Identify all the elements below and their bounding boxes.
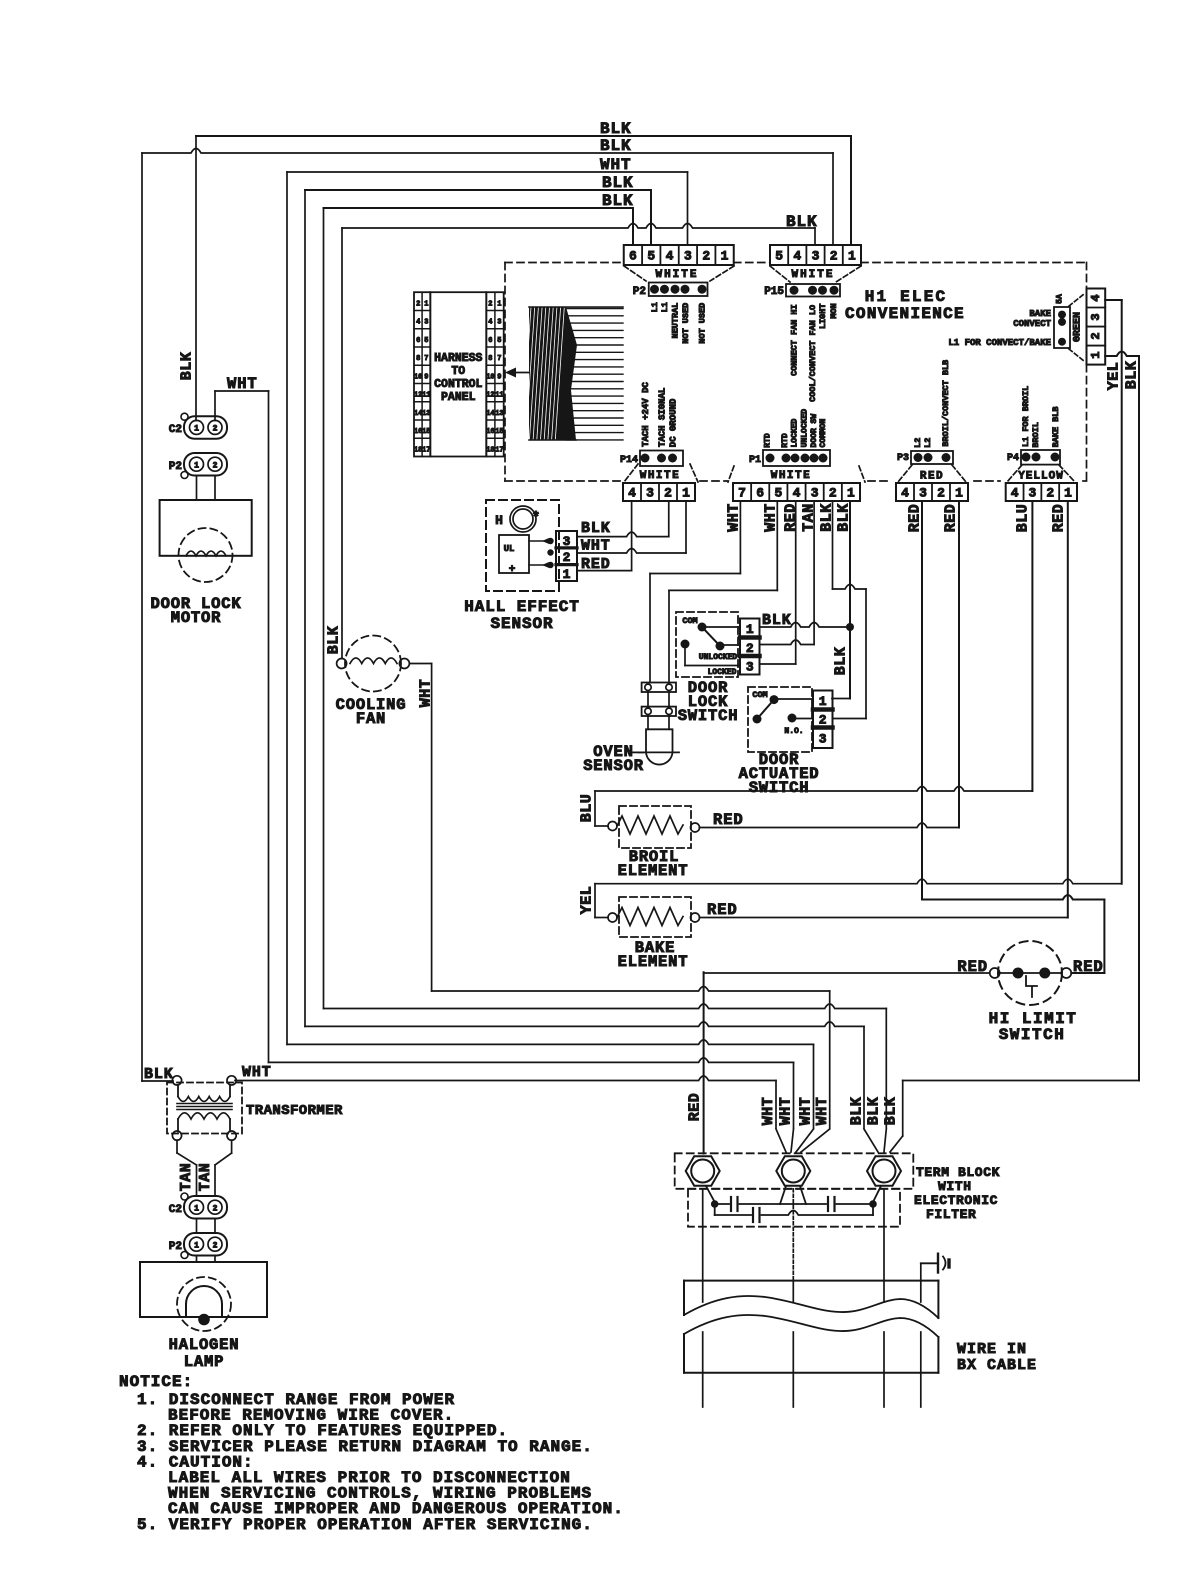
svg-text:WHT: WHT [763, 503, 780, 532]
svg-text:2: 2 [937, 486, 945, 501]
svg-text:3: 3 [424, 319, 428, 327]
svg-text:COM: COM [682, 616, 697, 626]
svg-text:6: 6 [629, 249, 637, 264]
svg-text:RTD: RTD [764, 433, 773, 448]
svg-text:2: 2 [488, 300, 492, 308]
svg-text:COMMON: COMMON [819, 419, 828, 448]
svg-text:MON: MON [829, 303, 839, 318]
svg-text:1: 1 [497, 300, 501, 308]
svg-text:BLK: BLK [762, 612, 792, 629]
svg-text:2: 2 [416, 300, 420, 308]
svg-text:1: 1 [194, 425, 199, 434]
svg-text:RED: RED [957, 958, 988, 976]
svg-text:BLK: BLK [602, 174, 634, 192]
svg-text:YEL: YEL [579, 886, 596, 915]
svg-text:3: 3 [497, 319, 501, 327]
svg-text:LOCKED: LOCKED [708, 668, 737, 677]
svg-text:COOL/CONVECT FAN LO: COOL/CONVECT FAN LO [808, 305, 818, 402]
svg-text:8: 8 [488, 355, 492, 363]
svg-text:5: 5 [774, 486, 782, 501]
svg-text:1: 1 [194, 461, 199, 470]
svg-text:2: 2 [213, 461, 218, 470]
svg-text:10: 10 [414, 373, 422, 381]
svg-text:NOT USED: NOT USED [698, 303, 708, 344]
svg-text:L2: L2 [913, 438, 923, 448]
svg-text:RED: RED [907, 504, 924, 533]
svg-text:BX CABLE: BX CABLE [957, 1357, 1037, 1374]
svg-text:UL: UL [504, 544, 515, 554]
svg-text:LOCKED: LOCKED [791, 419, 800, 448]
svg-text:BLU: BLU [1015, 504, 1032, 533]
svg-text:GREEN: GREEN [1073, 312, 1084, 342]
svg-text:BLK: BLK [600, 120, 632, 138]
svg-text:C2: C2 [169, 424, 182, 436]
svg-text:RTD: RTD [781, 433, 790, 448]
svg-text:1: 1 [847, 486, 855, 501]
svg-text:YEL: YEL [1106, 362, 1123, 391]
svg-text:MOTOR: MOTOR [171, 609, 222, 627]
svg-text:1: 1 [746, 622, 754, 637]
svg-text:5A: 5A [1056, 294, 1065, 304]
svg-text:TO: TO [451, 365, 465, 378]
svg-text:1: 1 [848, 249, 856, 264]
svg-text:DOOR SW: DOOR SW [810, 414, 819, 448]
svg-text:10: 10 [486, 373, 494, 381]
svg-text:3: 3 [819, 732, 827, 747]
svg-text:5: 5 [775, 249, 783, 264]
svg-text:7: 7 [424, 355, 428, 363]
svg-text:P2: P2 [169, 461, 182, 473]
svg-text:RED: RED [920, 471, 944, 483]
svg-text:TACH +24V DC: TACH +24V DC [641, 382, 651, 447]
svg-text:7: 7 [497, 355, 501, 363]
svg-text:TAN: TAN [197, 1163, 214, 1192]
svg-text:BAKE BLB: BAKE BLB [1051, 407, 1061, 448]
svg-text:2: 2 [830, 249, 838, 264]
svg-text:P2: P2 [169, 1241, 182, 1253]
svg-text:6: 6 [488, 337, 492, 345]
svg-text:17: 17 [495, 446, 503, 454]
svg-text:8: 8 [416, 355, 420, 363]
svg-text:4: 4 [901, 486, 909, 501]
svg-text:L1: L1 [650, 302, 660, 312]
svg-text:1: 1 [955, 486, 963, 501]
svg-text:HARNESS: HARNESS [434, 352, 482, 365]
svg-text:WHT: WHT [778, 1097, 795, 1126]
svg-text:15: 15 [495, 428, 503, 436]
svg-text:SWITCH: SWITCH [749, 779, 810, 797]
svg-text:BLK: BLK [179, 352, 196, 381]
svg-text:4: 4 [793, 486, 801, 501]
svg-text:17: 17 [422, 446, 430, 454]
svg-text:2: 2 [1046, 486, 1054, 501]
svg-text:WHT: WHT [760, 1097, 777, 1126]
svg-text:3: 3 [1089, 313, 1103, 320]
svg-text:N.O.: N.O. [784, 727, 803, 736]
svg-text:4: 4 [416, 319, 420, 327]
svg-text:4: 4 [1011, 486, 1019, 501]
svg-text:3: 3 [1029, 486, 1037, 501]
svg-text:WHT: WHT [814, 1097, 831, 1126]
svg-text:WHT: WHT [418, 679, 435, 708]
svg-text:2: 2 [1089, 332, 1103, 339]
svg-text:P3: P3 [897, 453, 909, 464]
svg-text:TERM BLOCK: TERM BLOCK [916, 1165, 1000, 1180]
svg-text:2: 2 [829, 486, 837, 501]
svg-text:TAN: TAN [801, 503, 818, 532]
svg-text:1: 1 [424, 300, 428, 308]
svg-text:7: 7 [738, 486, 746, 501]
svg-text:DC GROUND: DC GROUND [669, 398, 679, 447]
svg-text:1: 1 [721, 249, 729, 264]
svg-text:RED: RED [1051, 504, 1068, 533]
svg-text:1: 1 [194, 1204, 199, 1213]
svg-text:RED: RED [581, 556, 611, 573]
svg-text:6: 6 [416, 337, 420, 345]
svg-text:*: * [532, 510, 540, 526]
svg-text:RED: RED [707, 901, 738, 919]
svg-text:WHITE: WHITE [771, 470, 812, 482]
svg-text:ELEMENT: ELEMENT [618, 953, 689, 971]
svg-text:1: 1 [682, 486, 690, 501]
svg-text:5: 5 [647, 249, 655, 264]
svg-text:WHT: WHT [798, 1097, 815, 1126]
svg-text:WHT: WHT [242, 1064, 272, 1081]
svg-text:COM: COM [752, 690, 767, 700]
svg-text:3: 3 [563, 534, 571, 549]
svg-text:LIGHT: LIGHT [818, 303, 828, 329]
svg-text:TRANSFORMER: TRANSFORMER [246, 1103, 343, 1119]
svg-text:RED: RED [1073, 958, 1104, 976]
svg-text:LAMP: LAMP [184, 1353, 224, 1371]
svg-text:NOT USED: NOT USED [681, 303, 691, 344]
svg-text:6: 6 [756, 486, 764, 501]
svg-text:P15: P15 [764, 286, 784, 298]
svg-text:CONVENIENCE: CONVENIENCE [845, 305, 965, 323]
svg-text:1: 1 [563, 567, 571, 582]
svg-text:L1: L1 [660, 302, 670, 312]
svg-text:1: 1 [194, 1241, 199, 1250]
svg-text:9: 9 [424, 373, 428, 381]
svg-text:1: 1 [819, 694, 827, 709]
svg-text:C2: C2 [169, 1204, 182, 1216]
svg-text:+: + [509, 564, 516, 576]
svg-text:RED: RED [713, 811, 744, 829]
svg-text:NOTICE:: NOTICE: [119, 1373, 193, 1391]
svg-text:FAN: FAN [356, 710, 386, 728]
svg-text:WITH: WITH [938, 1179, 972, 1194]
svg-text:2: 2 [819, 713, 827, 728]
svg-text:9: 9 [497, 373, 501, 381]
svg-text:ELECTRONIC: ELECTRONIC [914, 1193, 998, 1208]
svg-text:13: 13 [422, 410, 430, 418]
svg-text:3: 3 [811, 486, 819, 501]
svg-text:BLK: BLK [600, 137, 632, 155]
svg-text:WHT: WHT [227, 375, 258, 393]
svg-text:L1 FOR BROIL: L1 FOR BROIL [1021, 386, 1031, 447]
svg-text:3: 3 [812, 249, 820, 264]
svg-text:2: 2 [213, 425, 218, 434]
svg-text:P14: P14 [620, 455, 638, 466]
svg-text:3: 3 [746, 660, 754, 675]
svg-text:L2: L2 [923, 438, 933, 448]
svg-text:4: 4 [793, 249, 801, 264]
svg-text:WHT: WHT [581, 538, 611, 555]
svg-text:NEUTRAL: NEUTRAL [671, 303, 681, 339]
svg-text:RED: RED [687, 1093, 704, 1122]
svg-text:BLK: BLK [581, 520, 611, 537]
svg-text:11: 11 [495, 392, 503, 400]
svg-text:4: 4 [628, 486, 636, 501]
svg-text:18: 18 [486, 446, 494, 454]
svg-text:FILTER: FILTER [926, 1207, 976, 1222]
svg-text:2: 2 [702, 249, 710, 264]
svg-text:P2: P2 [633, 286, 646, 298]
svg-text:RED: RED [943, 504, 960, 533]
svg-text:BLK: BLK [602, 192, 634, 210]
svg-text:BROIL/CONVECT BLB: BROIL/CONVECT BLB [941, 360, 951, 447]
svg-text:P4: P4 [1007, 453, 1019, 464]
svg-text:BLU: BLU [579, 794, 596, 823]
svg-text:15: 15 [422, 428, 430, 436]
svg-text:HALOGEN: HALOGEN [169, 1336, 240, 1354]
svg-text:1: 1 [1089, 351, 1103, 358]
svg-text:WHT: WHT [726, 503, 743, 532]
svg-text:TACH SIGNAL: TACH SIGNAL [658, 388, 668, 447]
svg-text:WHITE: WHITE [655, 269, 698, 281]
svg-text:4: 4 [666, 249, 674, 264]
svg-text:WHITE: WHITE [791, 269, 834, 281]
svg-text:WHT: WHT [600, 156, 632, 174]
svg-text:2: 2 [664, 486, 672, 501]
svg-text:BLK: BLK [1124, 361, 1141, 390]
svg-text:4: 4 [1089, 294, 1103, 301]
svg-text:BLK: BLK [326, 626, 343, 655]
svg-text:H1 ELEC: H1 ELEC [865, 288, 948, 306]
svg-text:SENSOR: SENSOR [583, 757, 644, 775]
svg-text:BROIL: BROIL [1031, 422, 1041, 448]
svg-text:TAN: TAN [178, 1163, 195, 1192]
svg-text:2: 2 [213, 1204, 218, 1213]
svg-text:14: 14 [486, 410, 494, 418]
svg-text:BLK: BLK [786, 213, 818, 231]
svg-text:PANEL: PANEL [441, 391, 476, 404]
svg-text:3: 3 [919, 486, 927, 501]
svg-text:L1 FOR CONVECT/BAKE: L1 FOR CONVECT/BAKE [948, 338, 1051, 348]
svg-text:CONVECT: CONVECT [1013, 319, 1051, 329]
svg-text:YELLOW: YELLOW [1018, 471, 1064, 483]
svg-text:3: 3 [684, 249, 692, 264]
svg-text:5: 5 [497, 337, 501, 345]
svg-text:13: 13 [495, 410, 503, 418]
svg-text:SWITCH: SWITCH [999, 1026, 1066, 1044]
svg-text:2: 2 [746, 641, 754, 656]
svg-text:12: 12 [486, 392, 494, 400]
svg-text:BLK: BLK [866, 1097, 883, 1126]
svg-text:2: 2 [213, 1241, 218, 1250]
svg-text:BLK: BLK [144, 1066, 174, 1083]
svg-text:UNLOCKED: UNLOCKED [801, 409, 810, 448]
svg-text:BLK: BLK [833, 647, 850, 676]
svg-text:BLK: BLK [836, 503, 853, 532]
svg-text:BLK: BLK [819, 503, 836, 532]
svg-text:H: H [495, 513, 503, 528]
svg-text:1: 1 [1064, 486, 1072, 501]
svg-text:4: 4 [488, 319, 492, 327]
svg-text:WHITE: WHITE [640, 470, 681, 482]
svg-text:P1: P1 [749, 455, 761, 466]
svg-text:UNLOCKED: UNLOCKED [699, 653, 738, 662]
svg-text:SWITCH: SWITCH [678, 707, 739, 725]
svg-text:BAKE: BAKE [1029, 309, 1051, 319]
svg-text:SENSOR: SENSOR [490, 615, 553, 633]
svg-text:5. VERIFY PROPER OPERATION AFT: 5. VERIFY PROPER OPERATION AFTER SERVICI… [137, 1516, 593, 1534]
svg-text:11: 11 [422, 392, 430, 400]
svg-text:BLK: BLK [883, 1097, 900, 1126]
svg-text:CONTROL: CONTROL [434, 378, 482, 391]
svg-text:HALL EFFECT: HALL EFFECT [464, 598, 580, 616]
svg-text:BLK: BLK [849, 1097, 866, 1126]
svg-text:3: 3 [646, 486, 654, 501]
svg-text:CONNECT FAN HI: CONNECT FAN HI [790, 304, 800, 375]
svg-text:2: 2 [563, 550, 571, 565]
svg-text:WIRE IN: WIRE IN [957, 1341, 1027, 1358]
svg-text:5: 5 [424, 337, 428, 345]
svg-text:16: 16 [486, 428, 494, 436]
svg-text:RED: RED [783, 503, 800, 532]
svg-text:ELEMENT: ELEMENT [618, 862, 689, 880]
